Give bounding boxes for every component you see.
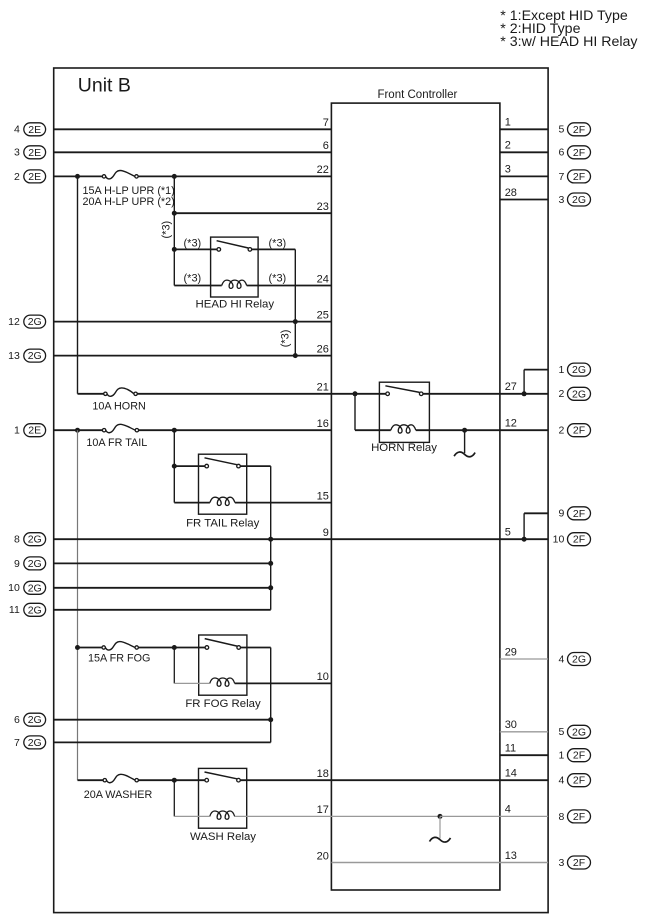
svg-text:FR FOG Relay: FR FOG Relay bbox=[185, 698, 261, 710]
svg-text:12: 12 bbox=[505, 418, 517, 430]
svg-text:7: 7 bbox=[14, 737, 20, 749]
svg-text:2G: 2G bbox=[28, 534, 42, 546]
svg-text:2F: 2F bbox=[573, 124, 585, 136]
svg-text:26: 26 bbox=[317, 343, 329, 355]
svg-text:4: 4 bbox=[14, 124, 20, 136]
svg-text:4: 4 bbox=[505, 804, 511, 816]
svg-text:HORN Relay: HORN Relay bbox=[371, 442, 437, 454]
svg-text:21: 21 bbox=[317, 382, 329, 394]
svg-text:2G: 2G bbox=[28, 604, 42, 616]
svg-text:(*3): (*3) bbox=[184, 273, 202, 285]
svg-text:30: 30 bbox=[505, 719, 517, 731]
svg-text:2F: 2F bbox=[573, 508, 585, 520]
svg-text:2F: 2F bbox=[573, 171, 585, 183]
svg-text:18: 18 bbox=[317, 768, 329, 780]
svg-text:9: 9 bbox=[323, 527, 329, 539]
svg-text:2G: 2G bbox=[28, 737, 42, 749]
svg-text:8: 8 bbox=[558, 811, 564, 823]
svg-text:28: 28 bbox=[505, 187, 517, 199]
svg-text:7: 7 bbox=[558, 171, 564, 183]
svg-text:2G: 2G bbox=[572, 364, 586, 376]
svg-text:2: 2 bbox=[14, 171, 20, 183]
svg-text:WASH Relay: WASH Relay bbox=[190, 831, 256, 843]
svg-text:2F: 2F bbox=[573, 147, 585, 159]
svg-text:5: 5 bbox=[558, 726, 564, 738]
svg-text:Unit B: Unit B bbox=[78, 75, 131, 97]
svg-text:2F: 2F bbox=[573, 811, 585, 823]
svg-text:* 3:w/ HEAD HI Relay: * 3:w/ HEAD HI Relay bbox=[500, 34, 638, 50]
svg-text:2G: 2G bbox=[572, 194, 586, 206]
svg-text:27: 27 bbox=[505, 381, 517, 393]
svg-text:2E: 2E bbox=[28, 124, 41, 136]
svg-text:2: 2 bbox=[558, 425, 564, 437]
svg-text:5: 5 bbox=[505, 527, 511, 539]
svg-text:3: 3 bbox=[505, 164, 511, 176]
svg-text:10: 10 bbox=[553, 534, 565, 546]
svg-text:FR TAIL Relay: FR TAIL Relay bbox=[186, 517, 260, 529]
svg-text:2G: 2G bbox=[28, 350, 42, 362]
svg-text:10A HORN: 10A HORN bbox=[92, 401, 145, 413]
svg-text:2F: 2F bbox=[573, 534, 585, 546]
svg-text:20A H-LP UPR (*2): 20A H-LP UPR (*2) bbox=[83, 196, 175, 208]
svg-text:10: 10 bbox=[8, 582, 20, 594]
svg-text:3: 3 bbox=[14, 147, 20, 159]
svg-text:(*3): (*3) bbox=[279, 330, 291, 348]
svg-text:14: 14 bbox=[505, 768, 517, 780]
svg-text:13: 13 bbox=[8, 350, 20, 362]
svg-text:11: 11 bbox=[505, 743, 516, 755]
svg-text:Front Controller: Front Controller bbox=[377, 89, 457, 101]
svg-text:6: 6 bbox=[14, 714, 20, 726]
svg-text:2G: 2G bbox=[28, 558, 42, 570]
svg-text:2E: 2E bbox=[28, 147, 41, 159]
svg-text:12: 12 bbox=[8, 316, 20, 328]
svg-text:(*3): (*3) bbox=[161, 221, 173, 239]
svg-text:17: 17 bbox=[317, 804, 329, 816]
svg-text:5: 5 bbox=[558, 124, 564, 136]
svg-text:1: 1 bbox=[505, 117, 511, 129]
svg-text:8: 8 bbox=[14, 534, 20, 546]
svg-text:20A WASHER: 20A WASHER bbox=[84, 789, 153, 801]
svg-text:6: 6 bbox=[558, 147, 564, 159]
svg-text:(*3): (*3) bbox=[184, 238, 202, 250]
svg-text:(*3): (*3) bbox=[269, 238, 287, 250]
svg-text:2G: 2G bbox=[28, 582, 42, 594]
svg-text:10: 10 bbox=[317, 671, 329, 683]
svg-text:15A FR FOG: 15A FR FOG bbox=[88, 653, 150, 665]
svg-text:9: 9 bbox=[14, 558, 20, 570]
svg-text:2F: 2F bbox=[573, 857, 585, 869]
svg-text:2: 2 bbox=[505, 140, 511, 152]
svg-text:16: 16 bbox=[317, 418, 329, 430]
svg-text:7: 7 bbox=[323, 117, 329, 129]
svg-text:1: 1 bbox=[558, 364, 564, 376]
svg-text:15: 15 bbox=[317, 490, 329, 502]
svg-text:2F: 2F bbox=[573, 425, 585, 437]
svg-text:4: 4 bbox=[558, 653, 564, 665]
svg-text:20: 20 bbox=[317, 850, 329, 862]
svg-text:HEAD HI Relay: HEAD HI Relay bbox=[196, 299, 275, 311]
svg-text:2G: 2G bbox=[572, 388, 586, 400]
svg-text:2G: 2G bbox=[28, 316, 42, 328]
svg-text:2E: 2E bbox=[28, 171, 41, 183]
svg-text:6: 6 bbox=[323, 140, 329, 152]
svg-text:23: 23 bbox=[317, 201, 329, 213]
svg-text:2: 2 bbox=[558, 388, 564, 400]
svg-text:2F: 2F bbox=[573, 750, 585, 762]
svg-text:29: 29 bbox=[505, 646, 517, 658]
svg-text:3: 3 bbox=[558, 194, 564, 206]
svg-text:22: 22 bbox=[317, 164, 329, 176]
svg-text:3: 3 bbox=[558, 857, 564, 869]
svg-text:13: 13 bbox=[505, 850, 517, 862]
svg-text:1: 1 bbox=[558, 750, 564, 762]
svg-text:2G: 2G bbox=[28, 714, 42, 726]
svg-text:1: 1 bbox=[14, 425, 20, 437]
svg-text:4: 4 bbox=[558, 775, 564, 787]
svg-text:24: 24 bbox=[317, 273, 329, 285]
svg-text:2G: 2G bbox=[572, 726, 586, 738]
svg-text:2E: 2E bbox=[28, 425, 41, 437]
svg-text:9: 9 bbox=[558, 508, 564, 520]
svg-text:2F: 2F bbox=[573, 775, 585, 787]
svg-text:25: 25 bbox=[317, 309, 329, 321]
svg-text:10A FR TAIL: 10A FR TAIL bbox=[86, 437, 147, 449]
svg-text:(*3): (*3) bbox=[269, 273, 287, 285]
svg-text:2G: 2G bbox=[572, 654, 586, 666]
svg-text:11: 11 bbox=[9, 604, 20, 616]
